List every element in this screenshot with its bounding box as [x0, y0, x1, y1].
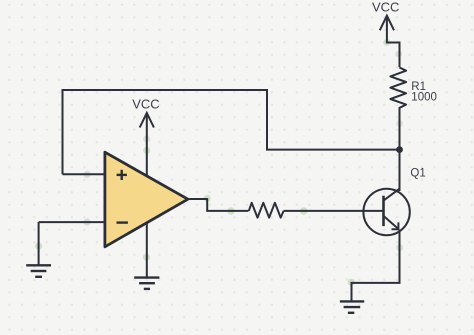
terminal dot (green) base resistor left pin — [227, 207, 235, 215]
wire - input to ground — [38, 222, 40, 265]
op-amp - marker — [117, 221, 128, 223]
terminal dot (green) left ground stem — [35, 243, 42, 250]
terminal dot (green) VCC jog corner — [383, 39, 390, 46]
VCC arrow (top right) — [380, 16, 400, 67]
terminal dot (gray) + input wire — [84, 171, 91, 178]
wire feedback loop: + input up, across top, down, to junction — [63, 90, 400, 174]
wire + input — [63, 173, 107, 175]
terminal dot (green) base resistor right pin — [300, 207, 308, 215]
terminal dot (green) emitter ground corner — [348, 279, 355, 286]
resistor (base, horizontal zigzag) — [249, 203, 284, 218]
op-amp U1 triangle — [105, 152, 188, 247]
wire R1 to junction — [399, 111, 401, 150]
VCC arrow (op-amp) — [140, 113, 154, 176]
wire junction to collector — [399, 150, 401, 191]
ground (op-amp power) — [134, 278, 159, 289]
ground (left, inverting input) — [26, 265, 51, 277]
junction node — [396, 146, 403, 153]
terminal dot (green) op-amp ground stem — [143, 254, 150, 261]
wire - input — [39, 221, 106, 223]
terminal dot (gray) - input wire — [84, 219, 91, 226]
op-amp + marker — [117, 170, 127, 180]
terminal dot (gray) R1 bottom pin — [396, 120, 403, 127]
terminal dot (gray-green) emitter pin below transistor — [396, 244, 403, 251]
terminal dot (green) output corner — [204, 195, 211, 202]
terminal dot (green) op-amp VCC pin lower — [143, 147, 150, 154]
svg-text:Q1: Q1 — [410, 167, 425, 179]
svg-text:VCC: VCC — [132, 97, 159, 112]
Q1 base bar — [382, 196, 385, 226]
Q1 emitter diagonal with arrow — [384, 216, 399, 229]
svg-text:VCC: VCC — [372, 0, 399, 15]
Q1 collector diagonal — [384, 189, 400, 201]
Q1 emitter arrowhead — [392, 222, 399, 229]
ground (emitter) — [340, 301, 364, 312]
terminal dot (green) op-amp VCC pin upper — [143, 135, 150, 142]
terminal dot (gray) R1 top pin — [395, 51, 402, 58]
svg-text:1000: 1000 — [411, 91, 437, 103]
transistor Q1 circle — [363, 189, 409, 235]
wire op-amp ground pin — [146, 222, 148, 277]
wire resistor to base — [284, 210, 384, 212]
wire op-amp output — [188, 199, 249, 211]
wire emitter to ground — [352, 230, 400, 301]
resistor R1 (vertical zigzag) — [390, 68, 406, 112]
